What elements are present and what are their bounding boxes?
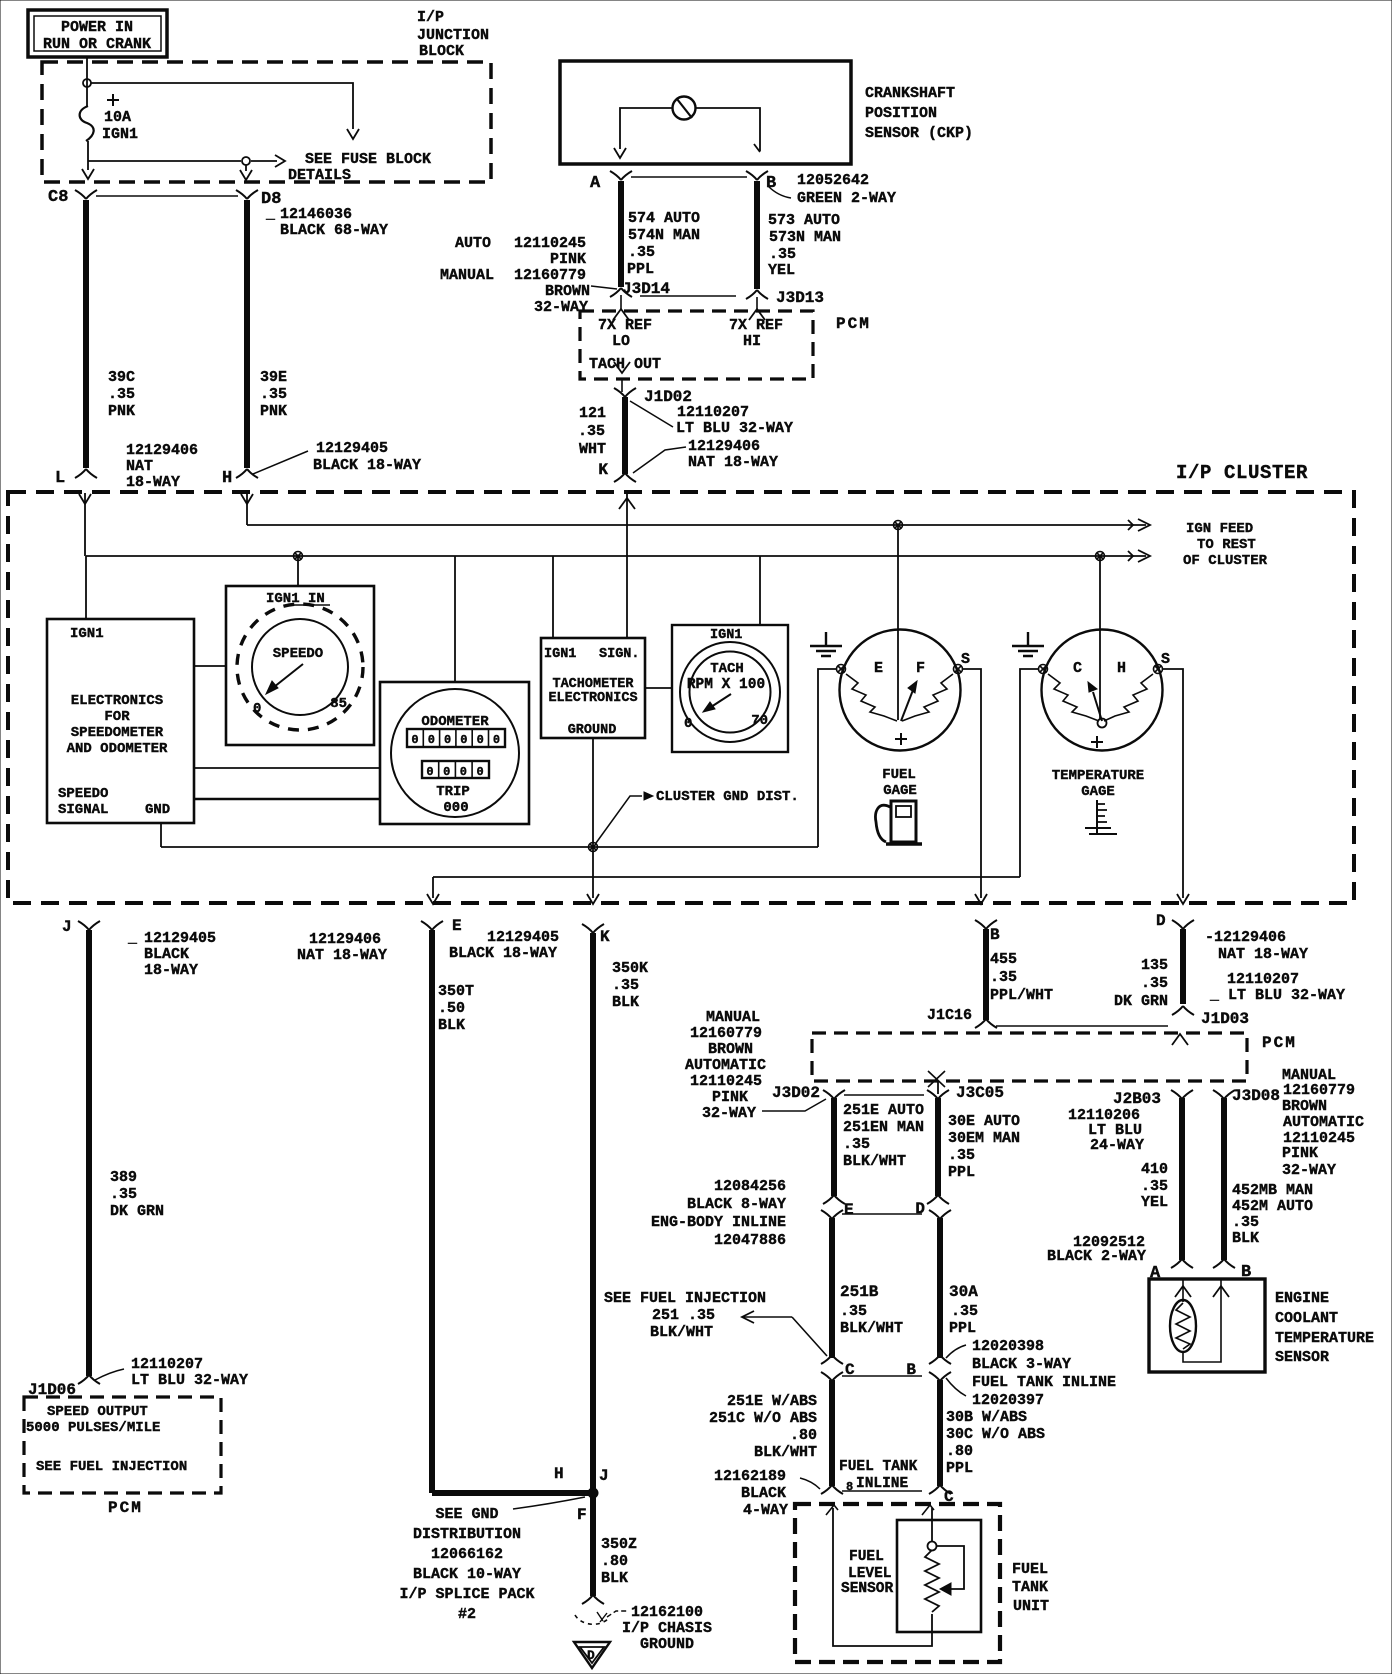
wire E elbow to splice (432, 1490, 593, 1496)
wire 251B BLK/WHT (829, 1218, 835, 1358)
svg-text:GROUND: GROUND (568, 723, 617, 738)
svg-text:BLK/WHT: BLK/WHT (840, 1320, 903, 1337)
tach dial inner (690, 652, 771, 733)
fuel tank unit dashed box (795, 1504, 1000, 1662)
wire 389 DK GRN (86, 930, 92, 1376)
wire TACH OUT stub (621, 380, 623, 392)
svg-text:C8: C8 (48, 188, 68, 207)
label S fuel (961, 651, 970, 668)
cluster gnd dist pointer (596, 792, 653, 843)
svg-text:18-WAY: 18-WAY (144, 962, 198, 979)
connector flare D inline (915, 1195, 949, 1218)
label AUTO 12110245 PINK (455, 235, 586, 268)
label SEE FUEL INJECTION pcm (36, 1459, 187, 1475)
label 30E AUTO 30EM MAN .35 PPL (948, 1113, 1020, 1181)
engine coolant temperature sensor box (1149, 1279, 1265, 1372)
svg-text:AUTO: AUTO (455, 235, 491, 252)
label GROUND (568, 723, 617, 738)
svg-text:SEE FUEL INJECTION: SEE FUEL INJECTION (604, 1290, 766, 1307)
svg-text:PCM: PCM (108, 1499, 143, 1517)
svg-text:HI: HI (743, 333, 761, 350)
chassis ground dashed arc (575, 1612, 608, 1624)
connector flare J1D03 (1172, 1006, 1249, 1028)
J3C05 PCM exit mark (928, 1071, 945, 1087)
label J2B03 12110206 LT BLU 24-WAY (1068, 1090, 1161, 1154)
svg-text:ODOMETER: ODOMETER (421, 714, 489, 730)
label RPM X 100 (687, 677, 765, 693)
svg-text:IGN FEED: IGN FEED (1186, 521, 1253, 537)
link elec to speedo (194, 665, 226, 667)
label C (1073, 660, 1082, 677)
PCM label top (836, 315, 871, 333)
svg-text:0: 0 (460, 765, 467, 779)
temp resistor right (1104, 674, 1153, 721)
svg-text:.80: .80 (790, 1427, 817, 1444)
svg-text:_ LT BLU 32-WAY: _ LT BLU 32-WAY (1209, 987, 1345, 1004)
node bus2 speedo tap (294, 552, 303, 561)
wire 573 YEL (754, 181, 760, 289)
fuel resistor left (846, 674, 897, 721)
chassis ground triangle (574, 1642, 610, 1668)
connector link C8-D8 (96, 195, 238, 197)
svg-text:12129406: 12129406 (126, 442, 198, 459)
wire temp S to D exit (1163, 669, 1189, 904)
label J3D02 (772, 1084, 820, 1102)
svg-text:K: K (598, 461, 608, 479)
label TACH OUT (589, 356, 661, 373)
PCM bottom-right dashed box (812, 1033, 1247, 1081)
connector link J3D02-J3C05 (844, 1094, 924, 1096)
svg-text:BROWN: BROWN (1282, 1098, 1327, 1115)
connector flare ECT A (1171, 1259, 1193, 1268)
svg-text:.50: .50 (438, 1000, 465, 1017)
svg-text:251E W/ABS: 251E W/ABS (727, 1393, 817, 1410)
connector flare B inline lower (929, 1372, 951, 1381)
label 350T .50 BLK (438, 983, 474, 1034)
label GND pin (145, 802, 170, 818)
connector flare E inline lower (821, 1210, 843, 1219)
svg-text:SPEEDOMETER: SPEEDOMETER (71, 725, 164, 741)
wire 135 DK GRN (1180, 929, 1186, 1004)
svg-text:FUEL TANK INLINE: FUEL TANK INLINE (972, 1374, 1116, 1391)
svg-text:251EN MAN: 251EN MAN (843, 1119, 924, 1136)
wire 30B W/ABS (937, 1380, 943, 1486)
svg-text:AUTOMATIC: AUTOMATIC (685, 1057, 766, 1074)
connector flare J3D08 (1213, 1090, 1235, 1099)
svg-text:RUN OR CRANK: RUN OR CRANK (43, 36, 151, 53)
wire fuel E leg (818, 669, 836, 847)
svg-text:C: C (1073, 660, 1082, 677)
svg-text:OF CLUSTER: OF CLUSTER (1183, 553, 1268, 569)
svg-text:PPL: PPL (948, 1164, 975, 1181)
svg-text:BLACK 18-WAY: BLACK 18-WAY (313, 457, 421, 474)
svg-text:251B: 251B (840, 1283, 879, 1301)
connector flare J3D13 (746, 289, 824, 307)
label 12162189 BLACK 4-WAY (714, 1468, 788, 1519)
svg-text:CRANKSHAFT: CRANKSHAFT (865, 85, 955, 102)
svg-text:0: 0 (443, 765, 450, 779)
svg-text:BLK: BLK (601, 1570, 628, 1587)
connector flare ECT B (1213, 1259, 1235, 1268)
svg-text:12160779: 12160779 (514, 267, 586, 284)
label FUEL GAGE (882, 767, 917, 799)
wire bus2 to tach electronics (552, 556, 554, 638)
svg-text:I/P CHASIS: I/P CHASIS (622, 1620, 712, 1637)
connector flare B (746, 171, 768, 180)
label 12129405 BLACK 18-WAY top (313, 440, 421, 474)
label PCM right (1262, 1034, 1297, 1052)
label SEE FUEL INJECTION pointer (604, 1290, 766, 1341)
leader 12162189 (800, 1478, 820, 1489)
svg-text:135: 135 (1141, 957, 1168, 974)
label 12110207 LT BLU 32-WAY bottom (131, 1356, 248, 1389)
svg-text:30B W/ABS: 30B W/ABS (946, 1409, 1027, 1426)
node D8 branch (242, 157, 250, 165)
svg-text:0: 0 (428, 733, 435, 747)
svg-text:YEL: YEL (1141, 1194, 1168, 1211)
svg-text:39E: 39E (260, 369, 287, 386)
connector flare C inline (821, 1355, 855, 1379)
svg-text:12110207: 12110207 (1227, 971, 1299, 988)
svg-text:YEL: YEL (768, 262, 795, 279)
svg-text:GAGE: GAGE (1081, 784, 1115, 800)
svg-text:32-WAY: 32-WAY (702, 1105, 756, 1122)
svg-text:452M AUTO: 452M AUTO (1232, 1198, 1313, 1215)
svg-text:30E AUTO: 30E AUTO (948, 1113, 1020, 1130)
wire bus2 to odometer (454, 556, 456, 682)
label TRIP 000 (436, 784, 470, 816)
svg-text:12052642: 12052642 (797, 172, 869, 189)
ECT internal wire (1183, 1292, 1221, 1362)
splice junction dot (588, 1488, 598, 1498)
label CRANKSHAFT POSITION SENSOR (CKP) (865, 85, 973, 142)
svg-text:.35: .35 (948, 1147, 975, 1164)
svg-text:PNK: PNK (108, 403, 135, 420)
fuse F 10A IGN1 (80, 106, 138, 143)
wire into 7X REF HI (749, 297, 765, 320)
svg-text:NAT: NAT (126, 458, 153, 475)
leader H connector (253, 451, 308, 474)
label 251B .35 BLK/WHT (840, 1283, 903, 1337)
svg-text:85: 85 (330, 696, 347, 712)
svg-text:BLK/WHT: BLK/WHT (650, 1324, 713, 1341)
label 12092512 BLACK 2-WAY (1047, 1234, 1146, 1265)
leader see gnd (513, 1497, 585, 1509)
svg-text:D: D (1156, 912, 1166, 930)
svg-text:TACH: TACH (710, 661, 744, 677)
label IGN1 tach (710, 628, 742, 643)
wire 30E PPL upper (935, 1098, 941, 1196)
tach scale 0 (684, 716, 692, 732)
label SEE FUSE BLOCK DETAILS (288, 151, 431, 184)
wire into 7X REF LO (613, 295, 629, 320)
svg-text:12162189: 12162189 (714, 1468, 786, 1485)
svg-text:J2B03: J2B03 (1113, 1090, 1161, 1108)
svg-text:I/P SPLICE PACK: I/P SPLICE PACK (399, 1586, 534, 1603)
wire fuse to D8 node (88, 160, 241, 162)
svg-text:F: F (577, 1506, 587, 1524)
label 410 .35 YEL (1141, 1161, 1168, 1211)
label IGN FEED TO REST OF CLUSTER (1183, 521, 1268, 569)
label TACH (710, 661, 744, 677)
svg-text:SPEEDO: SPEEDO (58, 786, 108, 802)
svg-text:#2: #2 (458, 1606, 476, 1623)
label H (1117, 660, 1126, 677)
label 251E W/ABS block (709, 1393, 817, 1461)
label H splice (554, 1465, 564, 1483)
svg-text:SENSOR: SENSOR (841, 1581, 894, 1597)
connector flare D inline lower (929, 1210, 951, 1219)
fuel needle (901, 681, 917, 721)
label 455 .35 PPL/WHT (990, 951, 1053, 1004)
tank entry mark left (826, 1505, 838, 1515)
label ELECTRONICS FOR SPEEDOMETER AND ODOMETER (67, 693, 168, 757)
wire bus2 to IGN1 electronics (85, 556, 87, 619)
svg-text:PPL: PPL (946, 1460, 973, 1477)
svg-text:7X REF: 7X REF (729, 317, 783, 334)
fuel gauge dial (840, 630, 961, 751)
label 12052642 GREEN 2-WAY (768, 172, 896, 207)
fuel terminal E node (837, 665, 846, 674)
svg-text:NAT 18-WAY: NAT 18-WAY (297, 947, 387, 964)
label PCM bottom-left (108, 1499, 143, 1517)
svg-text:PNK: PNK (260, 403, 287, 420)
svg-text:J: J (62, 918, 72, 936)
leader 32-WAY to J3D02 (762, 1099, 826, 1111)
svg-text:POSITION: POSITION (865, 105, 937, 122)
svg-text:FOR: FOR (104, 709, 130, 725)
svg-text:32-WAY: 32-WAY (1282, 1162, 1336, 1179)
svg-text:A: A (590, 174, 601, 193)
label 251E AUTO 251EN MAN .35 BLK/WHT (843, 1102, 924, 1170)
tachometer gauge box (672, 625, 788, 752)
label IGN1 IN (266, 591, 330, 607)
svg-text:SENSOR: SENSOR (1275, 1349, 1329, 1366)
wire 410 YEL (1179, 1098, 1185, 1260)
leader J1D06 (95, 1369, 124, 1380)
terminal J bottom (62, 918, 100, 936)
label 12110207 LT BLU 32-WAY mid (676, 404, 793, 437)
svg-text:B: B (766, 174, 776, 193)
svg-text:12162100: 12162100 (631, 1604, 703, 1621)
terminal E bottom (421, 917, 462, 935)
speedo scale 0 (253, 701, 261, 717)
svg-text:TEMPERATURE: TEMPERATURE (1275, 1330, 1374, 1347)
svg-text:7X REF: 7X REF (598, 317, 652, 334)
crankshaft position sensor box (560, 61, 851, 164)
svg-text:TACH OUT: TACH OUT (589, 356, 661, 373)
svg-text:12066162: 12066162 (431, 1546, 503, 1563)
sender wiper arm (936, 1546, 964, 1595)
connector link C-B inline (842, 1375, 922, 1377)
svg-text:I/P: I/P (417, 9, 444, 26)
wire fuse-top to fuse-block arrow (91, 83, 359, 139)
wire 39E PNK (D8 to H) (244, 200, 250, 468)
label J splice (599, 1467, 609, 1485)
link elec to odometer lower (194, 798, 380, 801)
svg-text:.35: .35 (1141, 975, 1168, 992)
speedometer electronics box (47, 619, 194, 823)
svg-text:0: 0 (477, 733, 484, 747)
connector link J1C16-J1D03 (996, 1025, 1168, 1027)
svg-text:FUEL: FUEL (1012, 1561, 1048, 1578)
wire 121 WHT (622, 397, 628, 474)
svg-text:IGN1: IGN1 (70, 626, 104, 642)
svg-text:.80: .80 (946, 1443, 973, 1460)
svg-text:B: B (990, 926, 1000, 944)
label FUEL LEVEL SENSOR (841, 1549, 894, 1597)
wire tach elec ground (587, 738, 599, 904)
svg-text:12160779: 12160779 (690, 1025, 762, 1042)
svg-text:H: H (554, 1465, 564, 1483)
wire E exit drop (427, 877, 439, 904)
svg-text:24-WAY: 24-WAY (1090, 1137, 1144, 1154)
svg-text:573 AUTO: 573 AUTO (768, 212, 840, 229)
label 12110207 LT BLU 32-WAY right (1209, 971, 1345, 1004)
svg-text:573N MAN: 573N MAN (769, 229, 841, 246)
svg-text:BLACK: BLACK (144, 946, 189, 963)
svg-text:12129405: 12129405 (144, 930, 216, 947)
svg-text:J3D13: J3D13 (776, 289, 824, 307)
svg-text:SPEED OUTPUT: SPEED OUTPUT (47, 1404, 148, 1420)
speedo dashed dial (237, 604, 363, 730)
CKP internal wire left (614, 108, 673, 158)
svg-text:12020398: 12020398 (972, 1338, 1044, 1355)
svg-text:BLK/WHT: BLK/WHT (843, 1153, 906, 1170)
connector flare A (610, 171, 632, 180)
label pin B ECT (1241, 1263, 1251, 1282)
tach dial outer (680, 642, 780, 742)
tank entry mark right (922, 1505, 934, 1515)
svg-text:.35: .35 (843, 1136, 870, 1153)
cluster entry H (241, 493, 253, 525)
fuel level sensor inner box (897, 1520, 981, 1632)
svg-text:SPEEDO: SPEEDO (273, 646, 323, 662)
label SPEEDO SIGNAL (58, 786, 108, 818)
sender wiper node (928, 1542, 937, 1551)
wire node down to D8 (240, 165, 252, 180)
svg-text:FUEL TANK: FUEL TANK (839, 1459, 918, 1475)
svg-text:FUEL: FUEL (882, 767, 916, 783)
label FUEL TANK UNIT (1012, 1561, 1049, 1615)
svg-text:12110207: 12110207 (131, 1356, 203, 1373)
svg-text:LT BLU 32-WAY: LT BLU 32-WAY (676, 420, 793, 437)
svg-text:30C W/O ABS: 30C W/O ABS (946, 1426, 1045, 1443)
TACH OUT exit mark (614, 362, 630, 373)
svg-text:GROUND: GROUND (640, 1636, 694, 1653)
svg-text:30A: 30A (949, 1283, 978, 1301)
svg-text:MANUAL: MANUAL (440, 267, 494, 284)
connector flare fuel tank left (821, 1485, 843, 1494)
svg-text:BLACK 68-WAY: BLACK 68-WAY (280, 222, 388, 239)
fuel sender resistor (925, 1550, 939, 1612)
fuel pump icon (876, 801, 922, 844)
svg-text:4-WAY: 4-WAY (743, 1502, 788, 1519)
label SPEED OUTPUT 5000 PULSES/MILE (26, 1404, 160, 1436)
svg-text:BLK: BLK (1232, 1230, 1259, 1247)
svg-text:SEE GND: SEE GND (435, 1506, 498, 1523)
label ODOMETER (421, 714, 489, 730)
svg-text:AND ODOMETER: AND ODOMETER (67, 741, 168, 757)
label dash 12129405 (127, 930, 216, 979)
svg-text:LO: LO (612, 333, 630, 350)
svg-text:.80: .80 (601, 1553, 628, 1570)
J1D03 PCM entry (1172, 1034, 1188, 1045)
fuel terminal S node (954, 665, 963, 674)
fuel resistor right (902, 674, 953, 721)
node cluster gnd dist (589, 843, 598, 852)
ECT entry arrow A (1175, 1279, 1191, 1302)
label S temp (1161, 651, 1170, 668)
odometer digit wheels (407, 729, 505, 747)
svg-text:18-WAY: 18-WAY (126, 474, 180, 491)
svg-text:J1D03: J1D03 (1201, 1010, 1249, 1028)
terminal L (55, 469, 97, 488)
svg-text:GREEN 2-WAY: GREEN 2-WAY (797, 190, 896, 207)
label FUEL TANK INLINE mid (839, 1459, 918, 1494)
svg-text:BLACK 10-WAY: BLACK 10-WAY (413, 1566, 521, 1583)
svg-text:BLACK: BLACK (741, 1485, 786, 1502)
svg-text:12020397: 12020397 (972, 1392, 1044, 1409)
svg-text:.35: .35 (108, 386, 135, 403)
svg-text:350K: 350K (612, 960, 648, 977)
svg-text:LT BLU 32-WAY: LT BLU 32-WAY (131, 1372, 248, 1389)
node bus2 temp tap (1096, 552, 1105, 561)
wire 455 PPL/WHT (983, 929, 989, 1020)
ignition bus 1 (247, 519, 1150, 531)
svg-text:BLACK 2-WAY: BLACK 2-WAY (1047, 1248, 1146, 1265)
label IGN1 SIGN. (544, 647, 640, 662)
svg-text:TACHOMETER: TACHOMETER (552, 677, 634, 692)
svg-text:12110245: 12110245 (690, 1073, 762, 1090)
svg-text:8: 8 (846, 1480, 853, 1494)
svg-text:PPL: PPL (949, 1320, 976, 1337)
label F splice (577, 1506, 587, 1524)
pin B label (766, 174, 776, 193)
odometer box (380, 682, 529, 824)
plus sign (107, 94, 119, 106)
tach needle (703, 694, 731, 712)
svg-text:.35: .35 (110, 1186, 137, 1203)
svg-text:SIGN.: SIGN. (599, 647, 640, 662)
leader to 12129406 (633, 447, 686, 473)
label eng-body inline block (651, 1178, 786, 1249)
svg-text:I/P CLUSTER: I/P CLUSTER (1176, 462, 1308, 484)
svg-text:.35: .35 (578, 423, 605, 440)
svg-text:-12129406: -12129406 (1205, 929, 1286, 946)
temp gauge ground (1012, 632, 1044, 656)
connector flare J1C16 (927, 1007, 997, 1028)
svg-text:D: D (587, 1648, 595, 1663)
svg-text:0: 0 (444, 733, 451, 747)
label 12129406 NAT 18-WAY bottom (297, 931, 387, 964)
label TEMPERATURE GAGE (1052, 768, 1144, 800)
label F (916, 660, 925, 677)
svg-text:JUNCTION: JUNCTION (417, 27, 489, 44)
temp needle (1088, 682, 1102, 721)
ignition bus 2 (86, 550, 1150, 562)
label 135 .35 DK GRN (1114, 957, 1168, 1010)
svg-text:E: E (844, 1201, 854, 1219)
link tach elec to tach gauge (645, 687, 672, 689)
svg-text:BLACK 18-WAY: BLACK 18-WAY (449, 945, 557, 962)
see fuel injection arrow (742, 1311, 827, 1356)
svg-text:000: 000 (443, 800, 468, 816)
svg-text:POWER IN: POWER IN (61, 19, 133, 36)
label 121 .35 WHT (578, 405, 606, 458)
terminal C8 (48, 188, 97, 207)
svg-text:F: F (916, 660, 925, 677)
